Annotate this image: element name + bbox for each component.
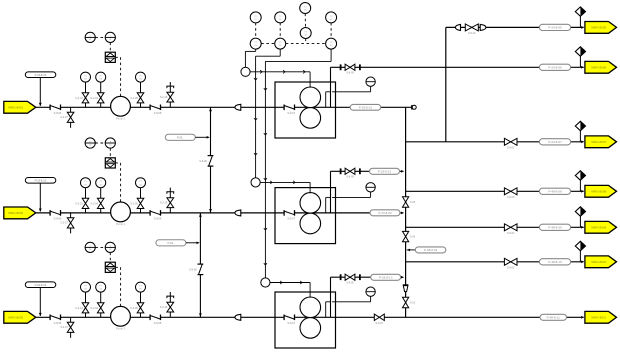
gate valve S-2-05 train 3 xyxy=(140,293,142,318)
instrument circle TT-2 bottom row xyxy=(275,38,286,49)
drain valve S-2-06 train 3 xyxy=(70,317,72,338)
signal dashes top cluster xyxy=(255,23,257,38)
svg-text:S-8-03: S-8-03 xyxy=(507,196,515,199)
spec break Z upper xyxy=(208,156,214,167)
signal dash switchbox-to-pump train 1 xyxy=(115,56,120,58)
line label capsule main outlet 2 xyxy=(370,210,400,216)
spec break Z lower xyxy=(198,264,204,275)
junction arrow main1 to interconnect xyxy=(209,108,212,111)
pipe: main header line train 1 xyxy=(36,106,412,108)
svg-text:Pump 3: Pump 3 xyxy=(116,327,125,331)
junction arrow into tag 4 xyxy=(581,190,584,193)
svg-text:P-83..: P-83.. xyxy=(177,135,184,139)
hose connector train 1 xyxy=(235,104,241,110)
signal dash instrument-to-switchbox train 3 xyxy=(109,253,111,263)
svg-text:S-8-20: S-8-20 xyxy=(468,32,476,35)
line label capsule P-23-8-2S xyxy=(25,178,56,184)
svg-text:Pump 2: Pump 2 xyxy=(116,222,125,226)
junction arrow vent2 into bus xyxy=(401,170,404,173)
svg-text:S-03: S-03 xyxy=(410,302,416,305)
bus reducer xyxy=(403,284,409,286)
gate valve S-2-03 train 3 xyxy=(85,293,87,318)
line label capsule P-83 lower xyxy=(156,240,186,246)
svg-text:P-23-8-1S: P-23-8-1S xyxy=(35,178,47,182)
gate valve S-2-04 train 3 xyxy=(100,293,102,318)
sensor circle package 1 xyxy=(241,67,250,76)
svg-text:S-8-05: S-8-05 xyxy=(346,282,354,285)
signal dash instrument-to-switchbox train 1 xyxy=(109,43,111,53)
spec break in package 3 xyxy=(284,315,294,321)
gate valve on main 3 xyxy=(374,314,384,320)
svg-text:P-48-8-11: P-48-8-11 xyxy=(547,315,560,319)
pipe: package 3 vent line xyxy=(330,277,332,317)
svg-text:S-2-05: S-2-05 xyxy=(130,202,138,205)
gate valve S-2-03 train 2 xyxy=(85,188,87,213)
package box 2 xyxy=(275,188,336,244)
bus gate valve upper S-05 xyxy=(403,197,409,207)
svg-text:WRG-8007: WRG-8007 xyxy=(591,140,606,144)
drain valve S-2-06 train 2 xyxy=(70,213,72,234)
pressure instrument PI-a train 1 xyxy=(81,72,91,82)
pressure instrument PI-c train 3 xyxy=(136,282,146,292)
bus gate valve lower S-06 xyxy=(403,231,409,241)
svg-text:P-23-8-1S: P-23-8-1S xyxy=(35,283,47,287)
status diamond outlet 2 xyxy=(579,56,581,67)
bus gate valve bottom xyxy=(403,297,409,307)
gate valve S-2-04 train 1 xyxy=(100,83,102,108)
junction arrow into tag 1 xyxy=(581,26,584,29)
wire: capsule link upper xyxy=(195,136,208,138)
svg-text:S-2-03: S-2-03 xyxy=(75,97,83,100)
spec break S-8-06 train 1 xyxy=(50,105,60,111)
line label capsule outlet 3 xyxy=(539,139,570,145)
signal dash instrument-to-switchbox train 2 xyxy=(109,148,111,158)
pressure instrument PI-a train 2 xyxy=(81,178,91,188)
signal dash instrument-to-instrument train 2 xyxy=(95,142,105,144)
svg-text:S-8-06: S-8-06 xyxy=(54,321,62,325)
line label capsule outlet 6 xyxy=(539,259,570,265)
instrument circles shared display train 1 xyxy=(85,32,95,42)
line label capsule P-83 upper xyxy=(165,134,195,140)
svg-text:S-2-07: S-2-07 xyxy=(60,116,68,119)
line label capsule outlet 7 xyxy=(540,314,567,320)
svg-text:S-8-08: S-8-08 xyxy=(154,321,162,325)
line label capsule outlet 4 xyxy=(539,188,570,194)
svg-text:S-2-07: S-2-07 xyxy=(60,326,68,329)
pipe: package 2 vent line xyxy=(330,171,332,213)
pipe: outlet line 3 xyxy=(406,141,584,143)
line label capsule main outlet 1 xyxy=(350,104,381,110)
svg-text:S-2-04: S-2-04 xyxy=(90,307,98,310)
vent valve flanges+gate package 1 xyxy=(340,64,342,70)
pressure gauge package 3 xyxy=(366,287,375,296)
svg-text:WRG-8002: WRG-8002 xyxy=(8,211,23,215)
svg-text:S-8-05: S-8-05 xyxy=(346,176,354,179)
status diamond outlet 1 xyxy=(579,16,581,27)
svg-text:S-06: S-06 xyxy=(410,236,416,239)
drain valve S-2-06 train 1 xyxy=(70,107,72,128)
svg-text:S-2-05: S-2-05 xyxy=(130,97,138,100)
pipe: outlet line 1 xyxy=(446,26,584,28)
vent 2 capsule xyxy=(370,168,400,174)
outlet tag WRG-8011 xyxy=(585,311,617,323)
svg-text:S-2-03: S-2-03 xyxy=(75,307,83,310)
svg-text:S-2-19: S-2-19 xyxy=(160,201,168,204)
junction arrow into tag 6 xyxy=(581,261,584,264)
gate valve outlet 1 xyxy=(465,24,478,31)
pressure instrument PI-c train 2 xyxy=(136,178,146,188)
svg-text:S-8-06: S-8-06 xyxy=(199,160,207,163)
svg-text:WRG-8001: WRG-8001 xyxy=(8,106,23,110)
junction arrow vent3 into bus xyxy=(401,276,404,279)
svg-text:S-8-07: S-8-07 xyxy=(287,111,295,115)
svg-text:P-48-8-10: P-48-8-10 xyxy=(548,260,562,264)
spec break S-8-06 train 3 xyxy=(50,315,60,321)
instrument circle TC-1 top row xyxy=(250,12,261,23)
svg-text:P-23-8-07: P-23-8-07 xyxy=(548,140,562,144)
pump 2 xyxy=(111,202,131,222)
pressure switch box train 3 xyxy=(105,262,115,272)
signal dash instrument-to-instrument train 1 xyxy=(95,36,105,38)
svg-text:P-48-8-01: P-48-8-01 xyxy=(424,248,438,252)
signal dash switchbox-to-pump train 3 xyxy=(115,266,120,268)
svg-text:S-8-06: S-8-06 xyxy=(54,111,62,115)
svg-text:WRG-8008: WRG-8008 xyxy=(591,190,606,194)
spec break S-8-08 train 3 xyxy=(150,315,160,321)
gauge tap piping package 3 xyxy=(325,302,327,318)
svg-text:S-8-04: S-8-04 xyxy=(507,232,515,235)
vent valve with cap S-2-19 train 3 xyxy=(169,292,171,317)
package box 1 xyxy=(275,82,336,138)
svg-text:S-8-07: S-8-07 xyxy=(376,322,384,325)
gate valve S-2-05 train 1 xyxy=(140,83,142,108)
line label capsule outlet 1 xyxy=(539,24,570,30)
spec break in package 1 xyxy=(284,105,294,111)
svg-text:P-48-8-09: P-48-8-09 xyxy=(548,225,562,229)
svg-text:S-2-19: S-2-19 xyxy=(160,306,168,309)
vent valve with cap S-2-19 train 1 xyxy=(169,82,171,107)
pressure gauge package 2 xyxy=(366,183,375,192)
signal dash instrument-to-instrument train 3 xyxy=(95,246,105,248)
wire: label riser train 2 xyxy=(39,183,41,211)
junction arrow into tag 5 xyxy=(581,226,584,229)
status diamond outlet 6 xyxy=(579,251,581,262)
vent valve with cap S-2-19 train 2 xyxy=(169,188,171,213)
outlet tag WRG-8007 xyxy=(585,136,617,148)
wire: sensor to package 1 xyxy=(250,71,310,73)
junction arrow interconnect to main2 xyxy=(209,209,212,212)
svg-text:WRG-8009: WRG-8009 xyxy=(591,226,606,230)
wire: signal run to package 2 sensor xyxy=(279,49,281,56)
svg-text:WRG-8006: WRG-8006 xyxy=(591,66,606,70)
pressure instrument PI-a train 3 xyxy=(81,282,91,292)
status diamond outlet 4 xyxy=(579,180,581,191)
pressure gauge package 1 xyxy=(366,77,375,86)
junction arrow into tag 7 xyxy=(581,316,584,319)
pipe: outlet line 4 xyxy=(406,190,584,192)
signal dash switchbox-to-pump train 2 xyxy=(115,162,120,164)
pipe: crossover vertical line1-line3 xyxy=(445,27,447,141)
svg-text:TC: TC xyxy=(330,16,333,18)
junction arrow interconnect to main3 xyxy=(199,313,202,316)
svg-text:P-23-8-05: P-23-8-05 xyxy=(548,26,562,30)
pressure switch box train 1 xyxy=(105,52,115,62)
svg-text:S-2-05: S-2-05 xyxy=(130,307,138,310)
inlet tag WRG-8001 xyxy=(4,101,36,113)
pressure instrument PI-c train 1 xyxy=(136,72,146,82)
pipe: outlet line 6 xyxy=(406,261,584,263)
bus line label capsule P-48-8-01 xyxy=(407,249,410,252)
svg-text:P-23-8-02: P-23-8-02 xyxy=(378,211,392,215)
svg-text:WRG-8010: WRG-8010 xyxy=(591,260,606,264)
hose connector train 3 xyxy=(235,314,241,320)
vent valve flanges+gate package 3 xyxy=(340,274,342,280)
svg-text:S-8-06: S-8-06 xyxy=(54,216,62,220)
wire: signal run to package 3 sensor xyxy=(330,49,332,61)
svg-text:P-23-8-1S: P-23-8-1S xyxy=(35,73,47,77)
instrument circle TC-3 top xyxy=(300,3,311,14)
svg-text:WRG-8011: WRG-8011 xyxy=(591,316,606,320)
wire: label riser train 3 xyxy=(39,288,41,316)
line end connector main 1 xyxy=(411,105,413,109)
spec break S-8-06 train 2 xyxy=(50,210,60,216)
instrument circle TC-4 top row xyxy=(326,12,337,23)
svg-text:S-8-07: S-8-07 xyxy=(287,321,295,325)
outlet tag WRG-8008 xyxy=(585,185,617,197)
svg-text:S-2-04: S-2-04 xyxy=(90,97,98,100)
svg-text:P-83..: P-83.. xyxy=(167,241,174,245)
wire: label riser train 1 xyxy=(39,78,41,106)
hose connector train 2 xyxy=(235,210,241,216)
hose connector outlet1 right xyxy=(480,24,486,30)
pipe: main header line train 3 xyxy=(36,316,584,318)
line label capsule P-23-8-1S xyxy=(25,72,56,78)
status diamond outlet 5 xyxy=(579,216,581,227)
wire: sensor to package 3 xyxy=(270,282,310,284)
svg-text:P-23-8-06: P-23-8-06 xyxy=(548,65,562,69)
svg-text:P-48-8-08: P-48-8-08 xyxy=(548,189,562,193)
junction arrow lower interconnect from main2 xyxy=(199,213,202,216)
junction arrow main2 into bus xyxy=(401,212,404,215)
svg-text:S-8-07: S-8-07 xyxy=(287,216,295,220)
wire: sensor to package 2 xyxy=(260,181,310,183)
pressure instrument PI-b train 2 xyxy=(96,178,106,188)
pipe: interconnect vertical pump1-pump2 xyxy=(210,107,212,213)
gate valve outlet line 4 xyxy=(504,188,517,195)
instrument circles shared display train 3 xyxy=(85,242,95,252)
svg-text:TC: TC xyxy=(279,16,282,18)
svg-text:S-2-07: S-2-07 xyxy=(60,222,68,225)
pressure instrument PI-b train 3 xyxy=(96,282,106,292)
gate valve S-2-05 train 2 xyxy=(140,188,142,213)
instrument circle TM mid xyxy=(300,28,311,39)
svg-text:TC: TC xyxy=(304,6,307,8)
line label capsule P-23-8-3S xyxy=(25,282,56,288)
outlet tag WRG-8005 xyxy=(585,22,617,34)
instrument circles shared display train 2 xyxy=(85,138,95,148)
svg-text:P-23-8-13: P-23-8-13 xyxy=(379,275,393,279)
spec break S-8-08 train 1 xyxy=(150,105,160,111)
pump 1 xyxy=(111,96,131,116)
svg-text:S-05: S-05 xyxy=(410,201,416,204)
junction arrow into tag 2 xyxy=(581,66,584,69)
status diamond outlet 3 xyxy=(579,131,581,142)
svg-text:S-8-02: S-8-02 xyxy=(507,147,515,150)
junction arrow into tag 3 xyxy=(581,141,584,144)
gate valve outlet line 3 xyxy=(504,138,517,145)
svg-text:S-2-04: S-2-04 xyxy=(90,202,98,205)
outlet tag WRG-8006 xyxy=(585,61,617,73)
instrument circle TT-1 bottom row xyxy=(250,38,261,49)
outlet tag WRG-8010 xyxy=(585,256,617,268)
gauge tap piping package 2 xyxy=(325,197,327,213)
gate valve outlet line 5 xyxy=(504,224,517,231)
vent valve flanges+gate package 2 xyxy=(340,168,342,174)
svg-text:S-8-08: S-8-08 xyxy=(154,111,162,115)
sensor circle package 3 xyxy=(261,278,270,287)
sensor circle package 2 xyxy=(251,178,260,187)
package box 3 xyxy=(275,292,336,348)
outlet tag WRG-8009 xyxy=(585,221,617,233)
hose connector outlet1 left xyxy=(455,24,460,30)
svg-text:P-23-8-12: P-23-8-12 xyxy=(378,169,392,173)
gate valve S-2-04 train 2 xyxy=(100,188,102,213)
inlet tag WRG-8003 xyxy=(4,311,36,323)
pipe: outlet line 2 (package 1 vent) xyxy=(331,66,584,68)
instrument circle TC-2 top row xyxy=(275,12,286,23)
pipe: interconnect vertical pump2-pump3 xyxy=(199,213,201,317)
pipe: outlet line 5 xyxy=(406,226,584,228)
svg-text:Pump 1: Pump 1 xyxy=(116,117,125,121)
pipe: vent riser package 1 xyxy=(330,67,332,107)
gate valve S-2-03 train 1 xyxy=(85,83,87,108)
filter element circles package 1 xyxy=(300,87,321,108)
svg-text:WRG-8003: WRG-8003 xyxy=(8,316,23,320)
wire: capsule link lower xyxy=(186,242,199,244)
line label capsule outlet 5 xyxy=(539,224,570,230)
gate valve outlet line 6 xyxy=(504,258,517,265)
svg-text:S-2-03: S-2-03 xyxy=(75,202,83,205)
pump 3 xyxy=(111,306,131,326)
svg-text:S-2-19: S-2-19 xyxy=(160,96,168,99)
spec break in package 2 xyxy=(284,210,294,216)
svg-text:S-8-06: S-8-06 xyxy=(189,269,197,272)
svg-text:P-23-8-01: P-23-8-01 xyxy=(359,105,373,109)
spec break S-8-08 train 2 xyxy=(150,210,160,216)
wire: signal run to package 1 sensor xyxy=(255,49,257,51)
svg-text:S-8-05: S-8-05 xyxy=(346,72,354,75)
pipe: main header line train 2 xyxy=(36,212,403,214)
vent 3 capsule xyxy=(371,274,401,280)
pressure switch box train 2 xyxy=(105,158,115,168)
gauge tap piping package 1 xyxy=(325,92,327,108)
svg-text:WRG-8005: WRG-8005 xyxy=(591,26,606,30)
pressure instrument PI-b train 1 xyxy=(96,72,106,82)
filter element circles package 3 xyxy=(300,297,321,318)
instrument circle TT-3 bottom row xyxy=(326,38,337,49)
line label capsule outlet 2 xyxy=(539,64,570,70)
svg-text:S-8-08: S-8-08 xyxy=(154,216,162,220)
pipe: distribution vertical bus xyxy=(405,107,407,317)
svg-text:TC: TC xyxy=(254,16,257,18)
filter element circles package 2 xyxy=(300,193,321,214)
inlet tag WRG-8002 xyxy=(4,207,36,219)
svg-text:S-8-05: S-8-05 xyxy=(507,267,515,270)
